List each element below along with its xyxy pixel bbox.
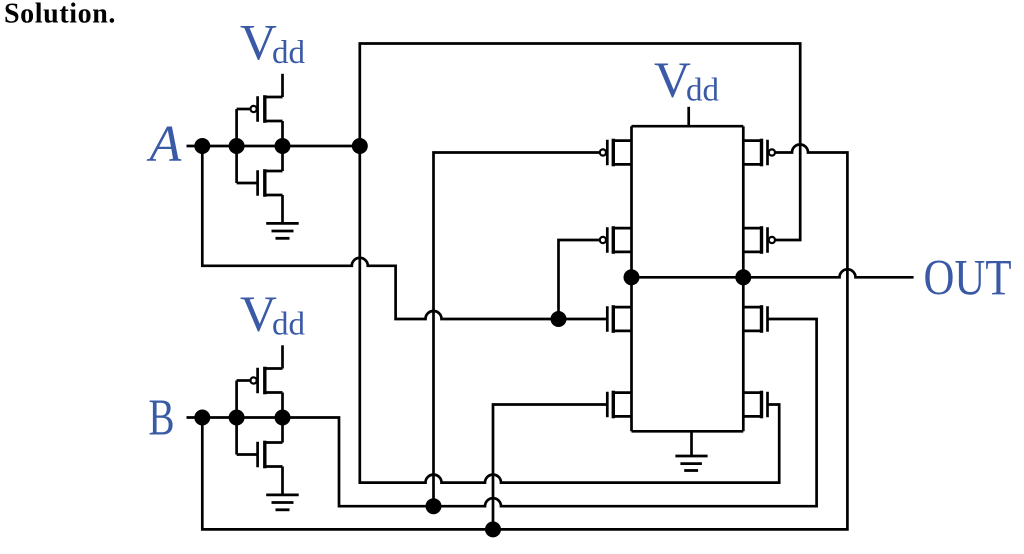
nmos N3 channel bar [760, 305, 763, 333]
wire net Abar: down left side, bottom run with hops, up to nmos N4 gate [360, 146, 779, 483]
wire left spine [630, 126, 633, 431]
nmos N3 source leg [743, 330, 761, 333]
wire net A: from input dot down, across with hop, down, across to nmos N1 gate [202, 146, 607, 319]
junction dot B inverter output [275, 410, 291, 426]
junction dot net B branch [485, 521, 501, 537]
pmos P3 (top-right): bubble [769, 149, 775, 155]
ground (main gate) [675, 456, 707, 471]
junction dot right drain rail / OUT node [735, 269, 751, 285]
junction dot B input [194, 410, 210, 426]
wire net B: from B input down, across bottom, up right side with hop to pmos P3 gate [202, 145, 847, 530]
pmos inverter-B gate bar [256, 368, 259, 394]
junction dot B gate node [229, 410, 245, 426]
svg-text:dd: dd [686, 73, 720, 109]
nmos N4 channel bar [760, 391, 763, 419]
wire Vdd stub (inverter A) [281, 74, 284, 97]
nmos N2 (lower-left): gate bar [606, 392, 609, 418]
pmos P2 channel bar [612, 226, 615, 254]
pmos P2 gate bar [606, 227, 609, 253]
nmos inverter-A drain leg [265, 170, 283, 173]
wire B input [187, 416, 282, 419]
wire inverter-B output vertical [281, 393, 284, 443]
nmos N1 drain leg [613, 306, 631, 309]
wire net Bbar: inverter-B output right, down, across with hop, up to nmos N3 gate [283, 319, 817, 506]
junction dot Abar node [352, 138, 368, 154]
nmos N1 source leg [613, 330, 631, 333]
nmos inverter-A gate bar [256, 170, 259, 196]
wire Vdd stub (inverter B) [281, 345, 284, 368]
pmos inverter-B drain leg [265, 391, 283, 394]
wire Vdd rail (main gate) [632, 125, 744, 128]
pmos P2 (bottom-left): bubble [600, 237, 606, 243]
nmos inverter-B pull-down: gate wire [237, 453, 258, 456]
pmos P2 source leg [613, 227, 631, 230]
wire net Bbar branch up to pmos P1 gate [434, 153, 600, 507]
ground (inverter A) [266, 223, 299, 238]
wire net Abar: up, top rail, down to pmos P4 gate [360, 44, 800, 241]
svg-text:Solution.: Solution. [4, 0, 116, 30]
junction dot A input [194, 138, 210, 154]
pmos P4 source leg [743, 227, 761, 230]
pmos P1 source leg [613, 139, 631, 142]
pmos inverter-B pull-up: gate wire [237, 379, 251, 382]
svg-text:B: B [149, 390, 175, 447]
junction dot net Bbar to pmos P1 gate [426, 498, 442, 514]
junction dot left drain rail [624, 269, 640, 285]
pmos P3 drain leg [743, 163, 761, 166]
wire ground stub (inverter B) [281, 467, 284, 495]
pmos P3 source leg [743, 139, 761, 142]
nmos inverter-A pull-down: gate wire [237, 182, 258, 185]
pmos inverter-A gate bar [256, 96, 259, 122]
wire ground rail (main gate) [632, 430, 744, 433]
junction dot net A to pmos P2 gate [551, 311, 567, 327]
wire ground stub (main gate) [690, 431, 693, 456]
nmos N2 channel bar [612, 391, 615, 419]
nmos N4 source leg [743, 415, 761, 418]
nmos N2 drain leg [613, 391, 631, 394]
pmos P1 drain leg [613, 163, 631, 166]
wire OUT rail and line with hop [632, 269, 914, 277]
nmos N4 (lower-right): gate bar [766, 392, 769, 418]
nmos inverter-A channel bar [263, 169, 266, 197]
svg-text:A: A [147, 116, 182, 173]
nmos N4 drain leg [743, 391, 761, 394]
junction dot A gate node [229, 138, 245, 154]
nmos inverter-B channel bar [263, 441, 266, 469]
svg-text:OUT: OUT [924, 251, 1012, 307]
pmos inverter-B bubble [251, 377, 257, 383]
pmos P2 drain leg [613, 251, 631, 254]
wire ground stub (inverter A) [281, 195, 284, 223]
pmos P1 (top-left): bubble [600, 149, 606, 155]
pmos inverter-A drain leg [265, 120, 283, 123]
pmos P3 channel bar [760, 139, 763, 167]
nmos N3 (upper-right): gate bar [766, 306, 769, 332]
nmos inverter-B drain leg [265, 441, 283, 444]
nmos N3 drain leg [743, 306, 761, 309]
nmos inverter-A source leg [265, 194, 283, 197]
wire right spine [742, 126, 745, 431]
pmos P4 gate bar [766, 227, 769, 253]
nmos N1 channel bar [612, 305, 615, 333]
junction dot A inverter output [275, 138, 291, 154]
wire A input [187, 145, 282, 148]
pmos P4 (bottom-right): bubble [769, 237, 775, 243]
wire inverter-A output vertical [281, 121, 284, 171]
nmos inverter-B source leg [265, 465, 283, 468]
pmos P4 channel bar [760, 226, 763, 254]
wire Vdd stub (main gate) [687, 107, 690, 126]
wire gate stem (inverter A) [235, 109, 238, 183]
pmos P1 channel bar [612, 139, 615, 167]
pmos inverter-A bubble [251, 106, 257, 112]
nmos N2 source leg [613, 415, 631, 418]
pmos inverter-A source leg [265, 96, 283, 99]
pmos inverter-B channel bar [263, 367, 266, 395]
pmos inverter-A channel bar [263, 95, 266, 123]
svg-text:dd: dd [272, 35, 306, 71]
pmos P4 drain leg [743, 251, 761, 254]
wire net A branch up to pmos P2 gate [559, 240, 600, 319]
pmos inverter-A pull-up: gate wire [237, 108, 251, 111]
svg-text:dd: dd [272, 306, 306, 342]
wire inverter-A output to junction [283, 145, 360, 148]
ground (inverter B) [266, 495, 299, 510]
nmos N1 (upper-left): gate bar [606, 306, 609, 332]
pmos P3 gate bar [766, 140, 769, 166]
pmos P1 gate bar [606, 140, 609, 166]
pmos inverter-B source leg [265, 367, 283, 370]
nmos inverter-B gate bar [256, 442, 259, 468]
wire gate stem (inverter B) [235, 381, 238, 455]
wire net B branch up to nmos N2 gate [493, 405, 607, 530]
